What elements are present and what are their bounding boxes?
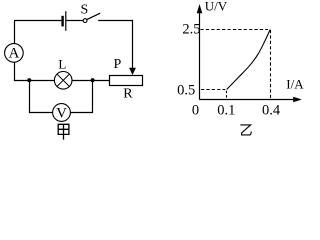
ammeter A1 bbox=[5, 44, 24, 63]
switch S1 blade (open) bbox=[87, 13, 100, 19]
wire voltmeter branch right bbox=[70, 81, 92, 113]
U-I characteristic curve bbox=[227, 30, 271, 90]
svg-text:A: A bbox=[8, 46, 19, 62]
svg-text:0: 0 bbox=[192, 103, 199, 119]
graph x-axis bbox=[200, 99, 296, 101]
wire switch to top-right corner bbox=[98, 21, 132, 69]
svg-text:V: V bbox=[56, 106, 67, 122]
voltmeter V1 bbox=[53, 104, 71, 122]
label jia (figure 1 caption) bbox=[58, 124, 69, 139]
svg-text:0.5: 0.5 bbox=[177, 82, 195, 98]
svg-text:0.1: 0.1 bbox=[217, 103, 235, 119]
svg-text:U/V: U/V bbox=[205, 0, 228, 14]
wire top-left corner down to ammeter bbox=[14, 21, 16, 44]
svg-text:0.4: 0.4 bbox=[262, 103, 281, 119]
resistor R (rheostat body) bbox=[110, 76, 143, 86]
dashed guide at U=0.5 bbox=[201, 89, 225, 91]
svg-text:L: L bbox=[58, 57, 66, 72]
node junction right (lamp/voltmeter tap) bbox=[91, 78, 95, 82]
label yi (figure 2 caption) bbox=[240, 125, 251, 135]
wire battery to switch bbox=[66, 20, 83, 22]
svg-text:S: S bbox=[81, 3, 89, 18]
wire ammeter down to bottom rail bbox=[15, 62, 55, 81]
node junction left (lamp/voltmeter tap) bbox=[27, 78, 31, 82]
svg-text:P: P bbox=[114, 57, 122, 72]
graph y-axis bbox=[199, 12, 201, 100]
wire top-left from corner to battery bbox=[14, 20, 61, 22]
wire lamp to rheostat bbox=[72, 80, 110, 82]
wire voltmeter branch left bbox=[30, 81, 53, 113]
dashed guide at U=2.5 bbox=[201, 29, 269, 31]
battery B1 positive plate (long thin) bbox=[65, 11, 67, 31]
svg-text:2.5: 2.5 bbox=[182, 22, 200, 38]
switch S1 pivot bbox=[83, 19, 87, 23]
dashed guide at I=0.1 bbox=[226, 91, 228, 99]
lamp L1 bbox=[54, 72, 72, 90]
battery B1 negative plate (short thick) bbox=[61, 16, 63, 27]
svg-text:I/A: I/A bbox=[286, 76, 304, 91]
svg-text:R: R bbox=[123, 86, 133, 101]
dashed guide at I=0.4 bbox=[270, 30, 272, 99]
rheostat wiper arrow bbox=[129, 68, 136, 75]
